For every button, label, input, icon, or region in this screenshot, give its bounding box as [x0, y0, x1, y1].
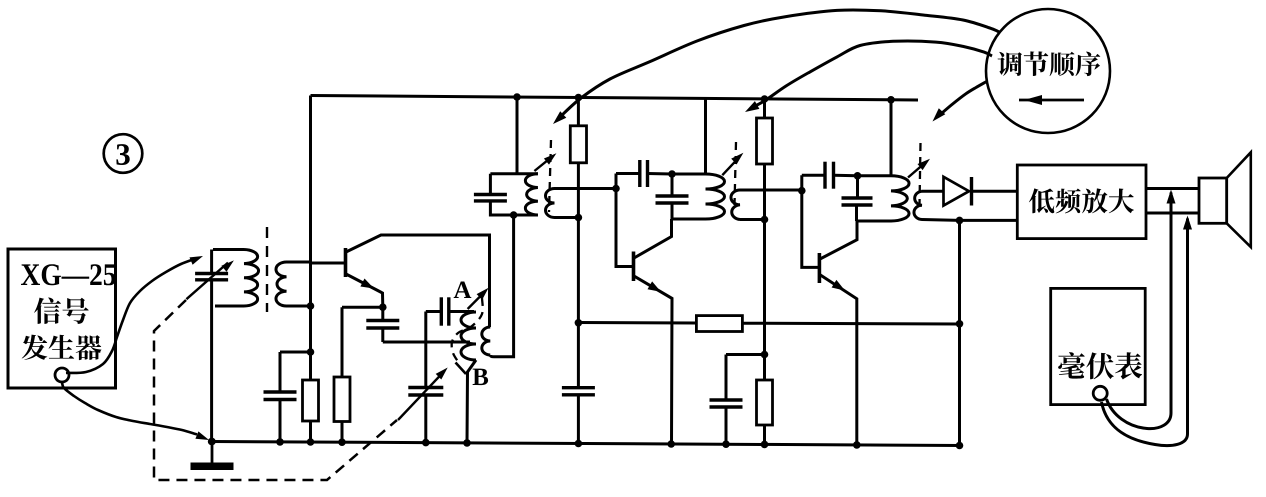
- loudspeaker: [1199, 178, 1227, 223]
- diode D1: [944, 177, 970, 206]
- IF1 slug arrow: [534, 156, 552, 171]
- junction Q3 base node: [798, 187, 806, 195]
- IF2 slug arrow: [722, 157, 739, 175]
- antenna coil secondary L2: [276, 262, 287, 306]
- junction bias tap: [761, 351, 769, 359]
- junction IF3 tank top: [854, 172, 862, 180]
- ground junction: [208, 438, 216, 446]
- wire C1 to rail: [279, 400, 282, 443]
- IF3 secondary winding: [914, 191, 922, 219]
- transistor Q2 base bar: [632, 252, 636, 282]
- arrow of variable cap C2: [186, 263, 228, 300]
- IF2 primary winding: [706, 174, 725, 219]
- transistor Q1 base bar: [344, 248, 348, 277]
- junction Q1 emitter node: [379, 303, 387, 311]
- junction IF1 bottom: [510, 211, 518, 219]
- label DiPinFangDa (audio amp): [1029, 188, 1134, 213]
- junction R3/secondary: [575, 214, 583, 222]
- junction IF2 tank top: [668, 170, 676, 178]
- diode D1 anode wire: [922, 190, 944, 193]
- wire Q3 base node: [802, 175, 820, 267]
- generator output terminal: [55, 368, 69, 382]
- IF1 secondary winding: [546, 189, 555, 218]
- label B: [473, 369, 489, 386]
- Q2 collector: [634, 219, 672, 258]
- gang link dashed: [154, 300, 397, 480]
- ferrite rod (dashed): [266, 227, 268, 312]
- IF3 secondary bottom lead: [922, 218, 960, 222]
- IF1 tank loop: [490, 172, 538, 175]
- resistor R6: [757, 380, 773, 425]
- tap point A arrow: [468, 292, 485, 309]
- IF2 secondary top lead: [740, 189, 802, 192]
- probe curve 1: [1107, 399, 1172, 429]
- junction rail/IF3 feed: [887, 96, 895, 104]
- Q1 base wire: [311, 262, 346, 265]
- capacitor C4 (osc coupling): [440, 297, 443, 325]
- label FaShengQi (generator): [22, 335, 102, 361]
- wire L4 to IF1 primary bottom: [490, 215, 513, 357]
- tap point B stroke: [456, 363, 467, 375]
- junction Q3 emitter/rail: [853, 441, 861, 449]
- IF1 tuning slug (dashed): [549, 140, 551, 212]
- variable capacitor C2 (antenna tuning): [195, 272, 228, 275]
- antenna coil primary L1: [213, 248, 244, 251]
- junction C10/rail: [722, 440, 730, 448]
- capacitor C9 (IF2 tank): [671, 174, 674, 196]
- wire generator hot lead to antenna tuning cap (curved, arrow): [66, 259, 196, 374]
- wire detector return to amp: [960, 219, 1018, 222]
- junction L3/rail: [463, 439, 471, 447]
- transistor Q3 base bar: [818, 253, 822, 283]
- IF2 tank top: [672, 173, 706, 176]
- wire left bias line (rail to R1): [309, 96, 312, 381]
- curve to IF2 slug: [751, 41, 992, 108]
- IF1 secondary top lead: [555, 187, 617, 190]
- capacitor C7 (AGC filter): [562, 386, 595, 389]
- junction Q2 base node: [612, 185, 620, 193]
- resistor R3: [577, 98, 580, 126]
- IF3 primary winding: [891, 176, 909, 221]
- wire rail to IF1 primary: [516, 97, 519, 174]
- label HaoFuBiao (millivoltmeter): [1058, 352, 1142, 379]
- capacitor C10: [710, 398, 743, 401]
- probe wire 1: [1170, 193, 1173, 414]
- speaker wire upper: [1146, 187, 1199, 190]
- resistor R2: [334, 377, 350, 422]
- junction R5/secondary: [761, 216, 769, 224]
- capacitor C6 (IF1 tank): [474, 193, 507, 196]
- wire C3 to oscillator coil tap: [383, 341, 470, 344]
- junction rail/R3: [575, 94, 583, 102]
- IF2 secondary bottom lead: [740, 218, 765, 221]
- capacitor C1: [264, 390, 297, 393]
- IF3 tank top: [858, 174, 892, 177]
- wire C7 to rail: [577, 395, 580, 444]
- label TiaoJieShunXu (adjustment order): [998, 51, 1101, 76]
- oscillator coil L3 primary: [449, 310, 474, 313]
- junction R6/rail: [761, 441, 769, 449]
- wire generator ground lead to chassis (curved, arrow): [62, 382, 197, 435]
- capacitor C3 (emitter bypass): [381, 307, 384, 320]
- Q3 emitter: [820, 275, 857, 446]
- junction Q2 emitter/rail: [667, 440, 675, 448]
- wire C10 to rail: [725, 407, 728, 445]
- capacitor C11 (neutralizing): [802, 174, 825, 177]
- junction C7/rail: [575, 440, 583, 448]
- audio amplifier box: [1017, 165, 1146, 239]
- junction ant secondary bottom: [307, 302, 315, 310]
- junction R1/rail: [307, 438, 315, 446]
- curve to IF3 slug: [938, 82, 987, 117]
- Q1 collector: [346, 235, 490, 327]
- variable capacitor C5 (osc tuning): [408, 386, 443, 389]
- top supply rail: [311, 96, 919, 101]
- wire rail to IF2 primary: [704, 98, 707, 174]
- junction AGC end: [956, 320, 964, 328]
- IF1 secondary bottom lead: [555, 216, 579, 219]
- Q1 emitter: [346, 274, 383, 307]
- IF2 tuning slug (dashed): [735, 142, 737, 205]
- Q3 collector: [820, 221, 857, 259]
- junction bypass cap tap: [307, 348, 315, 356]
- curve to IF1 slug: [560, 10, 999, 117]
- wire rail to IF3 primary: [890, 100, 893, 176]
- wire antenna cap lead: [210, 250, 213, 273]
- capacitor C10 branch: [726, 353, 765, 356]
- dashed arc A to B: [452, 298, 483, 363]
- wire emitter to R2: [342, 306, 383, 309]
- resistor R5: [763, 99, 766, 118]
- capacitor C8 (neutralizing): [616, 172, 640, 175]
- adjust-order circle: [986, 9, 1110, 133]
- meter terminal: [1093, 386, 1107, 400]
- probe wire 2: [1186, 219, 1189, 435]
- speaker wire lower: [1146, 212, 1199, 215]
- arrow of variable cap C5: [398, 373, 443, 421]
- label XG-25: [21, 264, 116, 285]
- junction R2/rail: [338, 438, 346, 446]
- diode D1 cathode wire: [972, 190, 1018, 193]
- IF1 primary winding: [525, 174, 538, 215]
- capacitor C12 (IF3 tank): [856, 176, 859, 198]
- oscillator coil L4 feedback: [482, 327, 491, 355]
- AGC line left: [578, 321, 696, 325]
- wire detector return down: [958, 220, 961, 445]
- order arrow: [1019, 99, 1084, 102]
- ground symbol: [211, 442, 214, 464]
- junction return/rail: [956, 442, 964, 450]
- Q2 emitter: [634, 276, 672, 445]
- junction C1/rail: [276, 438, 284, 446]
- AGC line right: [742, 322, 959, 326]
- junction rail/IF1 feed: [513, 93, 521, 101]
- IF2 tank bottom: [672, 218, 706, 221]
- IF3 tuning slug (dashed): [920, 143, 921, 205]
- signal generator box XG-25: [8, 249, 116, 388]
- junction rail/R5: [761, 95, 769, 103]
- label A: [454, 282, 472, 299]
- resistor R1: [303, 380, 319, 421]
- millivoltmeter box: [1051, 288, 1146, 404]
- IF2 secondary winding: [731, 190, 740, 220]
- IF3 slug arrow: [908, 162, 926, 178]
- junction C5/rail: [422, 439, 430, 447]
- wire AGC vertical: [577, 218, 580, 388]
- bottom ground rail: [212, 442, 961, 446]
- junction C2/rail: [208, 438, 216, 446]
- label XinHao (signal): [34, 298, 89, 324]
- wire osc cap branch: [424, 312, 427, 387]
- junction detector return: [956, 217, 964, 225]
- figure number circled 3: [104, 134, 143, 173]
- wire Q2 base node: [616, 174, 634, 267]
- resistor R4 (AGC): [696, 316, 742, 332]
- L3 bottom lead to B: [467, 360, 476, 443]
- IF3 tank bottom: [857, 220, 892, 223]
- wire R5 chain down: [763, 220, 766, 381]
- probe curve 2: [1102, 402, 1188, 446]
- wire cap tap: [280, 351, 311, 354]
- junction AGC node: [575, 319, 583, 327]
